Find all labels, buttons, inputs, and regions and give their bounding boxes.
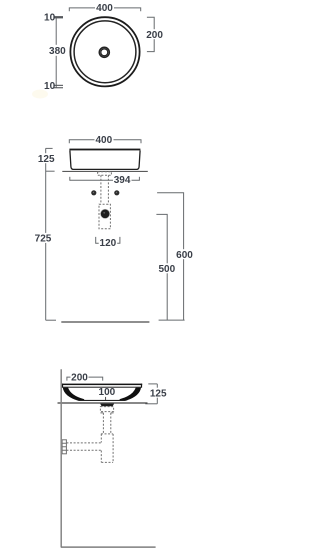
- counter line front view: [62, 170, 148, 172]
- svg-text:380: 380: [49, 46, 66, 57]
- svg-text:725: 725: [35, 234, 52, 245]
- svg-text:500: 500: [158, 264, 175, 275]
- drain flange side view: [100, 404, 114, 407]
- svg-text:400: 400: [95, 135, 112, 146]
- svg-text:600: 600: [176, 250, 193, 261]
- basin side view rim end caps: [62, 384, 63, 388]
- dim 200 side view: [67, 372, 103, 383]
- floor line front view: [61, 321, 149, 323]
- dim 394 front view: [70, 175, 140, 186]
- basin outer circle top view: [70, 17, 139, 86]
- svg-text:394: 394: [114, 175, 131, 186]
- svg-text:200: 200: [146, 30, 163, 41]
- drain pipe dashed front view: [101, 175, 109, 204]
- waste pipe horizontal dashed side view: [66, 443, 101, 450]
- drain stub dashed side view: [100, 407, 113, 412]
- stain smudge: [32, 90, 48, 99]
- trap collar dashed side view: [101, 433, 113, 435]
- dim 600 front view: [157, 193, 193, 320]
- basin side view rim top: [62, 384, 142, 386]
- stub shoulder ticks side view: [100, 412, 113, 414]
- dim 120 front view: [96, 237, 120, 249]
- basin inner rim circle top view: [74, 21, 136, 83]
- basin side view rim lower line: [62, 387, 142, 388]
- basin side view bottom line: [79, 400, 125, 401]
- leader tick 100 side view: [105, 397, 107, 400]
- dim 400 front view: [69, 135, 141, 146]
- dim 400 top view: [69, 3, 140, 14]
- basin side view left wall: [63, 388, 85, 401]
- bottom shared tick 500/600: [159, 319, 185, 321]
- dim 125 / 725 left front view: [35, 148, 57, 320]
- svg-text:125: 125: [150, 388, 167, 399]
- tailpipe dashed side view: [103, 413, 110, 434]
- wall connector dashed side view: [62, 440, 66, 454]
- trap body dashed side view: [101, 434, 113, 463]
- svg-text:120: 120: [100, 238, 117, 249]
- svg-text:125: 125: [38, 154, 55, 165]
- basin side view right wall: [119, 388, 141, 401]
- svg-text:10: 10: [44, 81, 56, 92]
- drain outer circle top view: [99, 47, 109, 57]
- drain collar dashed front view: [98, 172, 112, 175]
- dim 10/380/10 left top view: [44, 13, 66, 93]
- basin front view outline: [69, 149, 140, 170]
- floor line side view: [61, 546, 156, 548]
- valve box dashed front view: [99, 204, 110, 229]
- counter line side view: [58, 402, 148, 403]
- leg line side view: [60, 369, 62, 547]
- drain inner circle top view: [101, 49, 108, 56]
- dim 500 front view: [156, 214, 175, 320]
- mounting hole right front view: [114, 190, 119, 195]
- valve dot front view: [100, 209, 110, 219]
- svg-text:200: 200: [71, 373, 88, 384]
- svg-text:400: 400: [96, 3, 113, 14]
- dim 125 side view: [145, 384, 167, 404]
- mounting hole left front view: [91, 190, 96, 195]
- dim 200 right top view: [146, 17, 164, 51]
- svg-text:100: 100: [99, 387, 116, 398]
- svg-text:10: 10: [44, 13, 56, 24]
